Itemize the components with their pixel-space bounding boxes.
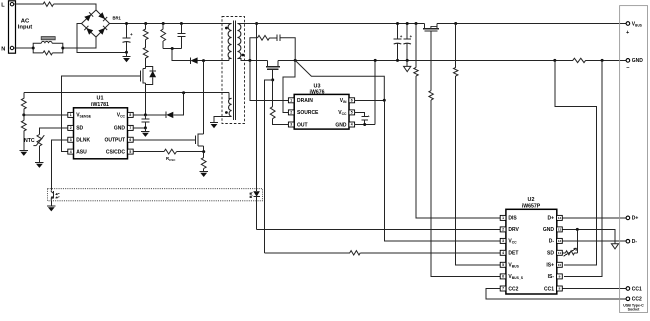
- svg-text:SD: SD: [547, 251, 554, 257]
- svg-text:N: N: [1, 46, 5, 52]
- svg-text:GND: GND: [114, 126, 126, 132]
- wire VBUS rail left: [237, 23, 424, 25]
- node outcap0 top: [396, 22, 399, 25]
- wire DET: [265, 252, 350, 254]
- node divider mid: [22, 113, 25, 116]
- node source: [202, 150, 205, 153]
- winding T1 secondary: [237, 24, 241, 59]
- transistor Q1 startup FET: [140, 66, 145, 85]
- node VCC cap gnd: [144, 126, 147, 129]
- snubber RC: [250, 34, 295, 60]
- wire VSENSE pin1: [24, 114, 68, 116]
- wire VBUS rail right: [437, 23, 626, 25]
- node GND rail snubber R: [294, 59, 297, 62]
- node outcap1 bot: [406, 59, 409, 62]
- node drain: [202, 59, 205, 62]
- ground opto emitter: [47, 200, 55, 211]
- pin 7 U2 CC2: [500, 286, 518, 292]
- svg-text:Socket: Socket: [628, 308, 641, 312]
- node U3 gnd rail: [374, 59, 377, 62]
- node U3 gnd cap: [363, 123, 366, 126]
- node outcap1 top: [406, 22, 409, 25]
- svg-text:GND: GND: [335, 122, 347, 128]
- svg-text:D+: D+: [547, 216, 554, 222]
- svg-text:CC1: CC1: [632, 286, 642, 292]
- resistor DET series: [350, 251, 501, 255]
- transformer T1 dashed box: [222, 17, 245, 124]
- ground divider: [20, 150, 28, 156]
- pin 1 U3 DRAIN: [288, 98, 313, 104]
- svg-text:VBUS: VBUS: [632, 21, 642, 27]
- wire primary + rail: [110, 23, 230, 25]
- svg-text:6: 6: [351, 99, 353, 103]
- pin 4 U2 DET: [500, 250, 518, 256]
- winding T1 primary: [228, 24, 232, 59]
- wire DLNK pin3 to opto: [51, 140, 68, 190]
- resistor DIS: [414, 24, 501, 218]
- wire primary bottom: [229, 59, 232, 61]
- wire U3 GND: [355, 124, 376, 126]
- svg-text:iW676: iW676: [310, 90, 325, 96]
- node GND rail snubber L: [248, 59, 251, 62]
- label L: [1, 2, 5, 8]
- wire IS- route: [564, 60, 602, 276]
- diode Q1 body: [146, 67, 156, 85]
- wire source node to VIN: [295, 60, 384, 100]
- wire OUTPUT pin6 to gate: [133, 139, 195, 141]
- wire U2 GND: [562, 229, 615, 243]
- label - GND: [626, 65, 630, 71]
- svg-text:8: 8: [129, 113, 131, 117]
- ground primary bulk: [122, 52, 130, 62]
- node T1 aux polarity: [225, 111, 228, 114]
- fuse F1: [43, 2, 54, 6]
- node bulk top: [125, 22, 128, 25]
- resistor shunt: [573, 58, 586, 62]
- svg-text:L: L: [1, 2, 5, 8]
- terminal GND: [626, 58, 643, 64]
- capacitor clamp C: [177, 24, 185, 49]
- pin 5 U3 VCC: [338, 110, 354, 116]
- svg-text:SD: SD: [76, 126, 83, 132]
- inductor L1 with parallel resistor: [33, 37, 63, 55]
- resistor RCSC: [164, 149, 204, 154]
- svg-text:U2: U2: [528, 197, 535, 203]
- connector J1 AC input: [9, 1, 16, 53]
- svg-text:7: 7: [502, 287, 504, 291]
- svg-text:OUTPUT: OUTPUT: [104, 138, 125, 144]
- pin 5 U1 CS/CDC: [106, 149, 133, 155]
- node bulk bottom: [125, 51, 128, 54]
- node T1 primary polarity: [225, 27, 228, 30]
- terminal CC1: [626, 286, 642, 292]
- svg-text:IS-: IS-: [548, 274, 555, 280]
- wire Q3 drain to U3 DRAIN: [250, 60, 288, 100]
- ground primary aux: [210, 123, 218, 129]
- node VCC: [144, 113, 147, 116]
- svg-text:12: 12: [558, 239, 562, 243]
- transistor opto phototransistor: [51, 190, 53, 200]
- svg-text:CC1: CC1: [544, 286, 554, 292]
- pin 1 U1 VSENSE: [68, 112, 92, 118]
- wire clamp to diode: [172, 49, 189, 61]
- svg-text:8: 8: [559, 287, 561, 291]
- wire GND rail b: [278, 59, 573, 61]
- svg-text:9: 9: [559, 275, 561, 279]
- svg-text:iW1781: iW1781: [91, 102, 109, 108]
- svg-text:+: +: [368, 115, 370, 119]
- node clamp R top: [162, 22, 165, 25]
- resistor startup R1: [143, 24, 148, 40]
- node aux diode tap: [182, 91, 185, 94]
- resistor divider upper: [21, 93, 26, 115]
- node VIN: [383, 99, 386, 102]
- svg-text:IS+: IS+: [546, 263, 554, 269]
- svg-text:GND: GND: [543, 227, 555, 233]
- svg-text:GND: GND: [632, 58, 644, 64]
- svg-text:CC2: CC2: [632, 297, 642, 303]
- thermistor NTC: [33, 135, 44, 163]
- svg-text:CS/CDC: CS/CDC: [106, 149, 126, 155]
- svg-text:D-: D-: [632, 239, 638, 245]
- wire DRV: [257, 228, 501, 230]
- wire VCC pin8: [133, 114, 165, 116]
- diode opto LED: [253, 24, 260, 230]
- terminal D+: [626, 216, 638, 222]
- svg-text:10: 10: [558, 263, 562, 267]
- capacitor VCC: [141, 115, 149, 128]
- node U2 gnd tap: [576, 228, 579, 231]
- wire drain riser: [203, 61, 205, 134]
- diode VCC rectifier: [165, 112, 173, 118]
- wire VIN riser to U2 VCC: [384, 100, 500, 241]
- pin 2 U3 SOURCE: [288, 110, 319, 116]
- svg-text:RCSC: RCSC: [166, 156, 176, 162]
- wire Q1 gate / ASU: [62, 76, 141, 152]
- svg-text:VCC: VCC: [338, 110, 347, 116]
- connector USB Type-C socket box: [620, 6, 648, 313]
- pin 4 U1 ASU: [68, 149, 87, 155]
- wire N to choke: [14, 47, 34, 49]
- node opto LED top: [255, 22, 258, 25]
- transformer T1 core: [233, 21, 235, 121]
- node shunt right: [601, 59, 604, 62]
- svg-text:BR1: BR1: [113, 16, 122, 21]
- optocoupler dashed box: [48, 189, 263, 201]
- svg-text:NTC: NTC: [24, 138, 35, 144]
- wire bridge minus: [77, 24, 127, 53]
- ground NTC: [35, 162, 43, 168]
- transistor Q2 main FET: [195, 134, 203, 152]
- wire clamp bottom: [163, 48, 181, 50]
- svg-text:iW657P: iW657P: [522, 204, 541, 210]
- svg-text:1: 1: [70, 113, 72, 117]
- svg-text:14: 14: [558, 216, 562, 220]
- pin 1 U2 DIS: [500, 215, 517, 221]
- svg-text:DRV: DRV: [508, 227, 519, 233]
- wire fuse to bridge: [54, 4, 97, 10]
- opto light arrows: [56, 193, 60, 198]
- ground secondary ref: [404, 60, 411, 71]
- capacitor output C3: [403, 24, 412, 61]
- pin 14 U2 D+: [547, 215, 562, 221]
- svg-text:VSENSE: VSENSE: [76, 113, 92, 119]
- svg-text:AC: AC: [21, 19, 30, 25]
- wire CC1: [562, 288, 626, 290]
- wire gate node branch: [265, 80, 273, 253]
- label U3: [310, 84, 325, 96]
- wire Q1 source to VCC node: [145, 85, 147, 115]
- wire SD pin2 to NTC: [39, 128, 67, 135]
- pin 12 U2 D-: [549, 238, 563, 244]
- svg-text:6: 6: [129, 138, 131, 142]
- wire aux sense line: [24, 92, 229, 94]
- svg-text:DIS: DIS: [508, 216, 517, 222]
- node VBUS sense tap: [454, 22, 457, 25]
- node startup R top: [144, 22, 147, 25]
- wire SD to gnd net: [576, 229, 578, 252]
- pin 6 U3 VIN: [340, 98, 355, 104]
- wire D-: [562, 240, 626, 242]
- winding T1 aux: [229, 98, 232, 116]
- pin 2 U1 SD: [68, 125, 84, 131]
- wire choke to bridge: [63, 37, 96, 48]
- terminal VBUS: [626, 21, 642, 27]
- svg-text:DLNK: DLNK: [76, 138, 90, 144]
- label U1: [91, 95, 109, 108]
- label USB socket: [623, 304, 644, 312]
- pin 8 U1 VCC: [117, 112, 133, 118]
- bridge rectifier BR1: [82, 10, 110, 37]
- wire CC2 route: [486, 289, 626, 299]
- label BR1: [113, 16, 122, 21]
- svg-text:4: 4: [351, 123, 353, 127]
- resistor VBUS sense: [454, 24, 501, 265]
- ground VCC: [141, 128, 149, 137]
- resistor clamp R: [161, 24, 166, 49]
- node DIS tap: [415, 22, 418, 25]
- label + bulk: [130, 32, 133, 37]
- node clamp mid: [171, 47, 174, 50]
- svg-text:VBUS: VBUS: [508, 263, 519, 269]
- svg-text:3: 3: [70, 138, 72, 142]
- terminal CC2: [626, 297, 642, 303]
- label NTC: [24, 138, 35, 144]
- opto LED arrows: [250, 192, 253, 197]
- wire GND rail a: [237, 59, 267, 61]
- svg-text:6: 6: [502, 275, 504, 279]
- op-amp U2 iW657P box: [506, 209, 557, 294]
- svg-text:OUT: OUT: [297, 122, 308, 128]
- pin 6 U2 VBUS_S: [500, 274, 524, 280]
- svg-text:2: 2: [502, 228, 504, 232]
- svg-text:3: 3: [290, 123, 292, 127]
- pin 3 U2 VCC: [500, 238, 517, 244]
- label AC Input: [18, 19, 32, 31]
- wire aux top: [229, 93, 232, 99]
- node choke right: [61, 47, 64, 50]
- wire CS pin5: [133, 151, 164, 153]
- capacitor U3 VCC: [361, 115, 369, 125]
- ground sense R: [200, 171, 208, 177]
- svg-text:D-: D-: [549, 239, 555, 245]
- svg-text:4: 4: [70, 150, 72, 154]
- node Q3 gate: [271, 78, 274, 81]
- svg-text:11: 11: [558, 251, 562, 255]
- svg-text:VCC: VCC: [117, 113, 126, 119]
- wire D+: [562, 217, 626, 219]
- op-amp U3 iW676 box: [294, 94, 349, 129]
- svg-text:5: 5: [502, 263, 504, 267]
- label + VBUS: [626, 30, 630, 36]
- transistor Q3 sync FET: [266, 60, 280, 80]
- svg-text:5: 5: [351, 111, 353, 115]
- svg-text:VBUS_S: VBUS_S: [508, 274, 523, 280]
- node clamp C top: [180, 22, 183, 25]
- svg-text:3: 3: [502, 239, 504, 243]
- svg-text:ASU: ASU: [76, 149, 87, 155]
- svg-text:SOURCE: SOURCE: [297, 110, 319, 116]
- wire aux bottom to ground: [214, 116, 232, 122]
- pin 4 U3 GND: [335, 122, 354, 128]
- svg-text:DRAIN: DRAIN: [297, 98, 313, 104]
- resistor Q3 gate R: [270, 80, 288, 125]
- wire diode to aux tap: [173, 93, 183, 115]
- terminal D-: [626, 239, 637, 245]
- capacitor output C2: [394, 24, 403, 61]
- pin 8 U2 CC1: [544, 286, 562, 292]
- wire U3 VCC: [355, 112, 365, 116]
- resistor current sense: [201, 152, 206, 172]
- pin 3 U3 OUT: [288, 122, 307, 128]
- svg-text:7: 7: [129, 126, 131, 130]
- capacitor bulk C1: [123, 24, 131, 53]
- pin 9 U2 IS-: [548, 274, 563, 280]
- wire GND rail c: [586, 59, 626, 61]
- resistor divider lower: [21, 115, 26, 150]
- label U2: [522, 197, 541, 209]
- wire GND pin7: [133, 127, 145, 129]
- pin 13 U2 GND: [543, 227, 562, 233]
- pin 5 U2 VBUS: [500, 262, 519, 268]
- pin 7 U1 GND: [114, 125, 133, 131]
- svg-text:1: 1: [502, 216, 504, 220]
- svg-text:5: 5: [129, 150, 131, 154]
- op-amp U1 iW1781 box: [74, 108, 128, 159]
- node T1 secondary polarity: [242, 54, 245, 57]
- transistor Q4 load switch: [423, 24, 439, 91]
- wire diode to drain node: [198, 60, 229, 62]
- svg-text:+: +: [130, 32, 133, 37]
- diode clamp D1: [189, 57, 197, 63]
- wire U3 GND riser: [374, 60, 376, 124]
- pin 10 U2 IS+: [546, 262, 562, 268]
- svg-text:U1: U1: [97, 95, 104, 101]
- wire source node to U3 SOURCE: [283, 60, 295, 112]
- pin 11 U2 SD: [547, 250, 562, 256]
- pin 2 U2 DRV: [500, 227, 519, 233]
- resistor Q4 gate R: [429, 91, 501, 277]
- svg-text:Input: Input: [18, 25, 32, 31]
- svg-text:U3: U3: [314, 84, 321, 90]
- pin 6 U1 OUTPUT: [104, 137, 133, 143]
- svg-text:DET: DET: [508, 251, 518, 257]
- svg-text:D+: D+: [632, 216, 639, 222]
- wire primary top into winding: [229, 23, 232, 25]
- wire L to fuse: [14, 3, 43, 5]
- wire U3 VIN: [355, 99, 385, 101]
- node outcap0 bot: [396, 59, 399, 62]
- node choke left: [32, 47, 35, 50]
- ground U2 GND: [611, 244, 618, 249]
- thermistor SD: [562, 248, 577, 256]
- node shunt left: [553, 59, 556, 62]
- svg-text:VIN: VIN: [340, 98, 347, 104]
- label RCSC: [166, 156, 176, 162]
- svg-text:13: 13: [558, 228, 562, 232]
- resistor startup R2: [143, 40, 148, 69]
- svg-text:VCC: VCC: [508, 239, 517, 245]
- svg-text:4: 4: [502, 251, 504, 255]
- svg-text:2: 2: [290, 111, 292, 115]
- svg-text:2: 2: [70, 126, 72, 130]
- wire IS+ route: [555, 60, 597, 264]
- pin 3 U1 DLNK: [68, 137, 91, 143]
- svg-text:1: 1: [290, 99, 292, 103]
- svg-text:CC2: CC2: [508, 286, 518, 292]
- label N: [1, 46, 5, 52]
